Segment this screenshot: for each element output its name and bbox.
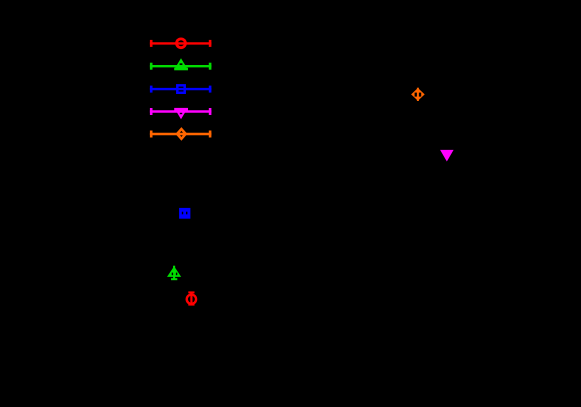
data point: magenta filled triangle-down: [440, 150, 454, 162]
legend entry 2: green triangle-up errorbar: [150, 58, 212, 70]
data point: green filled triangle-up with error bar and black cap slits: [167, 266, 181, 280]
legend entry 1: red circle errorbar: [150, 37, 212, 49]
data point: blue filled square with black cap slits: [179, 208, 190, 219]
data point: red open circle with vertical error bar and caps: [186, 292, 198, 306]
legend entry 3: blue square errorbar: [150, 84, 212, 94]
data point: orange diamond with vertical error bar: [411, 88, 425, 101]
legend entry 4: magenta triangle-down errorbar: [150, 108, 212, 119]
legend entry 5: orange diamond errorbar: [150, 127, 212, 141]
